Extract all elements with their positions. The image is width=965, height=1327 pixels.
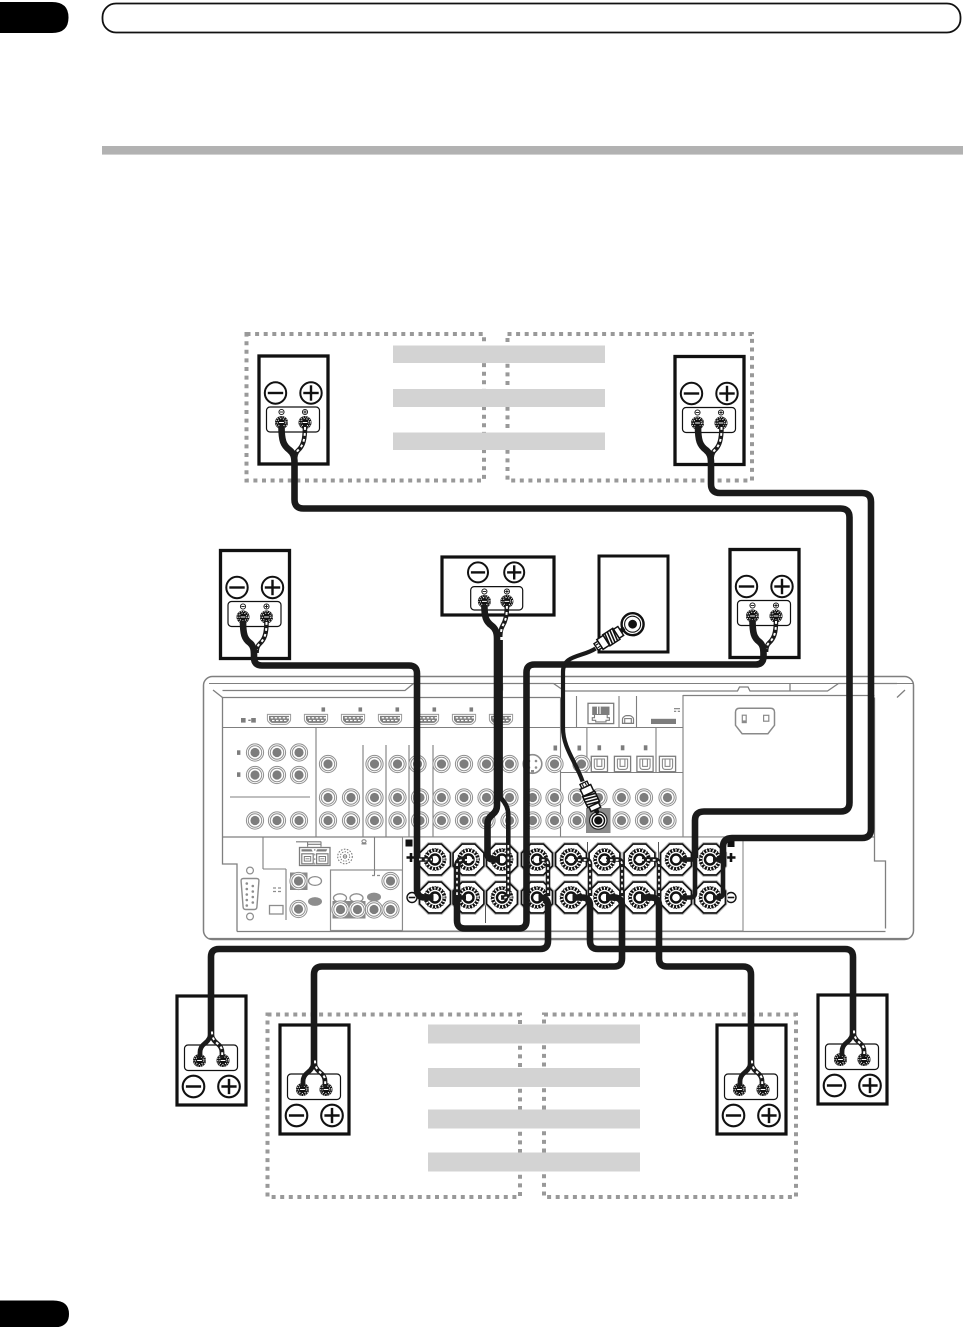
rca plug at receiver pre-out bbox=[577, 780, 603, 816]
optical port 1 bbox=[591, 756, 607, 771]
ground mark bbox=[362, 840, 367, 844]
page header bar bbox=[103, 4, 961, 33]
HDMI port 1 bbox=[267, 714, 290, 724]
dashed room box top-right bbox=[508, 334, 753, 481]
subwoofer pre-out jack highlight bbox=[586, 808, 611, 833]
speaker center bbox=[442, 557, 554, 615]
speaker front-right bbox=[730, 550, 799, 658]
zone oval gray bbox=[308, 897, 322, 906]
redacted text bar 4 bbox=[428, 1025, 640, 1044]
speaker surround-right outer bbox=[818, 995, 887, 1104]
component video jack row bbox=[319, 755, 590, 772]
dashed room box top-left bbox=[247, 334, 485, 481]
ethernet port bbox=[588, 703, 614, 723]
receiver section divider lines bbox=[223, 695, 684, 920]
strip corner mark right bbox=[728, 841, 735, 848]
zone video jack gray bbox=[290, 872, 308, 890]
binding posts row 1 bbox=[419, 844, 451, 876]
zone audio jack bbox=[290, 900, 307, 917]
wire center to post3 bbox=[484, 605, 508, 898]
redacted text bar 7 bbox=[428, 1153, 640, 1172]
speaker front-height-left bbox=[259, 356, 328, 464]
AC power inlet bbox=[736, 708, 775, 734]
wire surround-right-outer from post5 bbox=[566, 860, 864, 1057]
wire front-left to post1 bbox=[243, 621, 434, 898]
optical port 4 bbox=[659, 756, 675, 771]
speaker surround-left outer bbox=[177, 996, 246, 1105]
s-video jack bbox=[523, 755, 542, 774]
speaker surround-back-right bbox=[717, 1025, 786, 1134]
HDMI port 6 bbox=[452, 714, 475, 724]
HDMI port 7 bbox=[489, 714, 512, 724]
d-sub rs232 port bbox=[241, 867, 259, 920]
page number tab bottom-left bbox=[0, 1301, 69, 1327]
speaker front-left bbox=[221, 551, 290, 659]
rs232 label dots bbox=[273, 888, 281, 892]
dashed room box bottom-right bbox=[544, 1015, 796, 1198]
antenna terminal bbox=[651, 709, 680, 724]
strip minus sign left bbox=[407, 893, 417, 903]
speaker surround-back-left bbox=[280, 1025, 349, 1134]
strip corner mark left bbox=[406, 840, 413, 847]
HDMI port 2 bbox=[304, 714, 327, 724]
HDMI input marks bbox=[322, 707, 474, 711]
digital coax jack bbox=[573, 755, 590, 772]
strip plus sign right bbox=[727, 853, 736, 862]
audio jack row middle bbox=[319, 789, 676, 806]
redacted text bar 5 bbox=[428, 1068, 640, 1087]
wire front-right to post2 bbox=[457, 620, 776, 929]
binding posts row 2 bbox=[419, 882, 451, 914]
ir port rect bbox=[270, 906, 284, 915]
HDMI port 5 bbox=[415, 714, 438, 724]
redacted text bar 3 bbox=[393, 433, 605, 451]
optical input marks bbox=[554, 745, 648, 750]
subwoofer bbox=[599, 556, 668, 652]
redacted text bar 1 bbox=[393, 346, 605, 364]
usb port bbox=[623, 716, 634, 724]
optical port 2 bbox=[614, 756, 630, 771]
dashed room box bottom-left bbox=[268, 1015, 521, 1198]
page number tab top-left bbox=[0, 2, 69, 33]
speaker terminal strip box bbox=[403, 837, 744, 931]
left analog jack block bbox=[237, 744, 308, 829]
HDMI port 3 bbox=[341, 714, 364, 724]
speaker front-height-right bbox=[675, 357, 744, 465]
speaker-b push terminal block bbox=[296, 842, 330, 866]
HDMI port 4 bbox=[378, 714, 401, 724]
optical port 3 bbox=[637, 756, 653, 771]
antenna jack round bbox=[338, 849, 353, 864]
wire surround-back-left from post6 bbox=[303, 860, 622, 1087]
wire surround-left-outer from post4 bbox=[200, 860, 548, 1058]
wire front-height-left to post8 bbox=[282, 426, 850, 898]
wire subwoofer rca cable bbox=[563, 649, 596, 782]
strip plus sign left bbox=[407, 853, 416, 862]
multi zone group box bbox=[331, 870, 403, 931]
redacted text bar 2 bbox=[393, 389, 605, 407]
control in/out mark bbox=[241, 718, 256, 723]
zone oval 1 bbox=[309, 877, 322, 886]
receiver rear panel chassis bbox=[204, 677, 914, 940]
redacted text bar 6 bbox=[428, 1110, 640, 1129]
rca plug at subwoofer bbox=[592, 623, 628, 653]
wire front-height-right to post9 bbox=[698, 426, 871, 898]
strip divider marks bbox=[486, 842, 659, 923]
wire surround-back-right from post7 bbox=[635, 860, 762, 1087]
audio jack row lower bbox=[319, 812, 676, 829]
strip minus sign right bbox=[726, 893, 736, 903]
section heading bar bbox=[102, 146, 963, 155]
